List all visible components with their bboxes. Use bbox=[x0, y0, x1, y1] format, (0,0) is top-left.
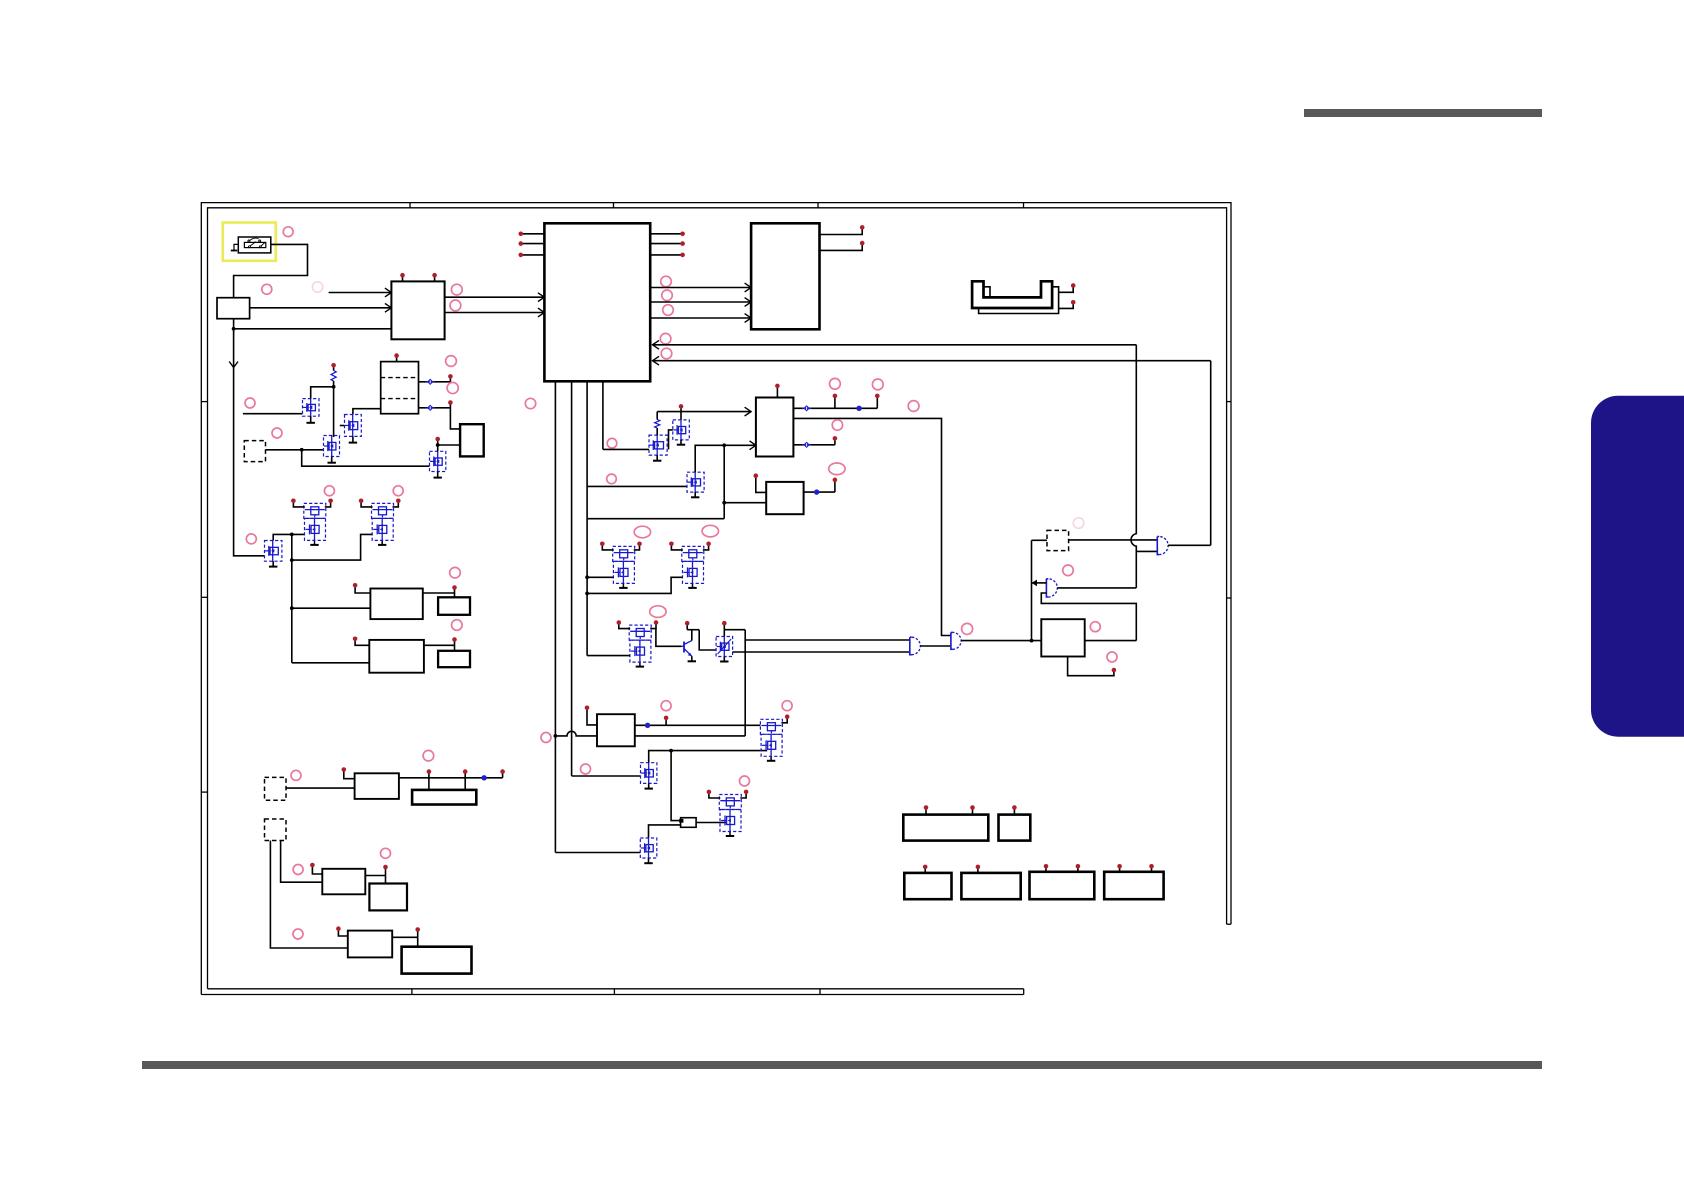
wire feedback2 vertical bbox=[1210, 361, 1212, 546]
junction rail-U7 bbox=[290, 606, 294, 610]
wire DBB to U12 bbox=[270, 841, 347, 949]
wire floating to U2 input1 bbox=[329, 292, 392, 294]
wire A2 input1 bbox=[1032, 582, 1047, 584]
pink mark U2 out2 bbox=[450, 300, 461, 311]
and gate A3 bbox=[912, 637, 921, 655]
pink mark left of Q3 bbox=[272, 428, 282, 438]
pin stub U4 out1a bbox=[834, 397, 836, 408]
wire stubs into U10b bbox=[428, 778, 430, 790]
wire DB1 to Q3 gate bbox=[266, 449, 324, 451]
pink mark above U9 out bbox=[661, 701, 671, 711]
regulator U2 bbox=[391, 281, 444, 339]
wire U6 out to A2 loop bbox=[1085, 640, 1137, 642]
and gate A1 bbox=[1159, 537, 1168, 555]
pink ellipse above P1 bbox=[634, 526, 650, 538]
pin stub Qb rail bbox=[680, 408, 682, 412]
pink mark near switch bbox=[283, 227, 293, 237]
Qx source bar bbox=[648, 783, 650, 788]
load block U11b bbox=[369, 884, 407, 911]
wire vertical P9 return bbox=[744, 640, 746, 736]
dashed box DB1 bbox=[244, 441, 265, 462]
pink mark below U1 bbox=[525, 398, 535, 408]
pin stub U9 left bbox=[587, 709, 597, 725]
module block B18 bbox=[1030, 872, 1095, 899]
resistor R3 bbox=[655, 420, 660, 429]
pink marks U1 right inputs bbox=[660, 333, 671, 344]
wire collector node bbox=[687, 629, 699, 631]
U1 left pin1 bbox=[522, 233, 545, 235]
pin stub U10 outb bbox=[464, 773, 466, 778]
transistor Qc bbox=[687, 472, 704, 492]
wire J1 to regulator U2 input2 bbox=[250, 307, 392, 309]
pin stub R1 top bbox=[333, 367, 335, 371]
wire Q2 gate link bbox=[340, 425, 345, 427]
wire V4 from U1 bbox=[602, 381, 604, 449]
pin stub U9 out1 bbox=[665, 719, 667, 725]
wire U7 out bbox=[423, 592, 455, 594]
pink marks U4 out1 bbox=[830, 378, 841, 389]
junction V3-P2 bbox=[585, 592, 589, 596]
wire Qd drain stub bbox=[723, 630, 725, 637]
junction node-U5 bbox=[722, 501, 726, 505]
pink mark right of J1 bbox=[262, 284, 272, 294]
wire V2 from U1 bbox=[571, 381, 573, 776]
wire DB1 node to Q4 gate bbox=[302, 450, 430, 466]
pink mark U4 out3 bbox=[832, 420, 842, 430]
wire U1 to U3 bus2 bbox=[650, 301, 751, 303]
wire rail to P7 gate bbox=[292, 534, 372, 560]
wire U4 out3 bbox=[793, 444, 835, 446]
resistor block RB bbox=[681, 818, 697, 828]
mosfet pair P13 bbox=[629, 625, 651, 640]
pin stub Q4 drain bbox=[437, 440, 439, 445]
wire feedback1 vertical with hop bbox=[1131, 345, 1136, 588]
and gate A2 bbox=[1048, 579, 1057, 597]
pink mark above Q15 bbox=[665, 705, 667, 707]
pink mark on V3 wire bbox=[607, 474, 617, 484]
transistor Qd bbox=[716, 637, 733, 657]
pink mark left of Q4 wire bbox=[276, 432, 278, 434]
pink marks D1 outputs bbox=[446, 356, 457, 367]
wire V1 from U1 bbox=[554, 381, 556, 852]
transistor Qx bbox=[641, 763, 657, 784]
U1 left pin3 bbox=[522, 254, 545, 256]
load block R2 bbox=[460, 424, 484, 456]
sheet border inner bbox=[208, 208, 1227, 989]
pink mark left of M5 bbox=[246, 534, 256, 544]
pink mark above U11 out bbox=[381, 848, 391, 858]
wire V3 from U1 bbox=[586, 381, 588, 655]
wire U6 bottom pin bbox=[1068, 657, 1114, 676]
driver block U9 bbox=[597, 714, 635, 746]
pink mark above U10 out bbox=[423, 750, 434, 761]
pink marks U1 right outputs bbox=[661, 276, 672, 287]
wire V1 to U9 with hop bbox=[555, 731, 597, 736]
pin stub U8 left bbox=[355, 640, 369, 645]
wire V1 to Q14 gate bbox=[555, 852, 640, 854]
dashed box DBB bbox=[265, 819, 287, 841]
wire A4 out to U6 bbox=[961, 640, 1041, 642]
Qb source bar bbox=[680, 440, 682, 445]
wire V3 link bbox=[587, 518, 724, 520]
pink mark left of U9 bbox=[541, 733, 551, 743]
pin stub B14 b bbox=[972, 809, 974, 815]
wire U8 out down bbox=[454, 645, 456, 651]
wire Qd out to gate A3 bbox=[733, 651, 910, 653]
wire U11 out bbox=[365, 875, 385, 877]
wire Qx drain rail bbox=[649, 751, 768, 763]
pin stub U4 out3 bbox=[834, 440, 836, 445]
junction square at RB bbox=[679, 819, 683, 823]
wire A3 to A4 bbox=[920, 645, 951, 647]
timer block U7 bbox=[370, 589, 422, 620]
transistor Q2 bbox=[345, 415, 362, 437]
pink mark U2 out1 bbox=[451, 284, 462, 295]
arrow down on J1 branch bbox=[229, 362, 238, 368]
Q15 emitter bar bbox=[691, 656, 693, 661]
pink mark on V4 wire bbox=[607, 438, 617, 448]
wire rail to U4 input1 bbox=[657, 411, 751, 413]
wire feedback2 into U1 bbox=[653, 360, 1211, 362]
junction V3-P1 bbox=[585, 575, 589, 579]
wire D1 out2 bbox=[419, 407, 451, 409]
junction Qc node bbox=[722, 443, 726, 447]
wire U7 out down bbox=[454, 593, 456, 597]
Q14 source bar bbox=[648, 858, 650, 863]
module block B14 bbox=[903, 815, 988, 841]
pink mark left of Q1 bbox=[245, 398, 255, 408]
wire D1 out1 bbox=[419, 381, 451, 383]
wire rail to U8 bbox=[292, 662, 370, 664]
wire Qb drain bbox=[680, 412, 682, 420]
wire rail to U7 bbox=[292, 607, 371, 609]
sheet border tick left bbox=[201, 401, 207, 403]
timer block U8 bbox=[369, 640, 424, 673]
status block U6 bbox=[1041, 619, 1084, 656]
sheet border outer bbox=[201, 203, 1231, 995]
sheet border outer bottom bbox=[201, 994, 1023, 996]
mosfet pair P1 bbox=[613, 546, 635, 561]
wire A2 out bbox=[1057, 587, 1136, 589]
Q2 source bar bbox=[352, 436, 354, 442]
pin stub B15 bbox=[1013, 809, 1015, 815]
junction Q4 drain bbox=[436, 443, 440, 447]
wire V3 to P2 gate bbox=[587, 577, 682, 593]
wire node to U5 input bbox=[724, 502, 766, 504]
wire U1 to U3 bus1 bbox=[650, 287, 751, 289]
wire bracket pin1 bbox=[1059, 287, 1074, 293]
wire A1 input2 bbox=[1136, 550, 1157, 552]
dashed box DBA bbox=[265, 777, 287, 800]
blue side tab bbox=[1591, 396, 1684, 737]
pin stub U12 out bbox=[417, 931, 419, 938]
wire Qa drain to R3 bbox=[656, 428, 658, 435]
wire U12 out bbox=[392, 936, 418, 938]
U1 right pin1 bbox=[650, 233, 682, 235]
mosfet pair P2 bbox=[682, 546, 704, 561]
wire D1 out2 to R2 bbox=[450, 408, 460, 429]
pin stub B19 b bbox=[1151, 868, 1153, 872]
wire Qb gate link bbox=[669, 430, 673, 450]
wire U3 pin out1 bbox=[820, 229, 863, 235]
wire rail down to RB bbox=[671, 751, 681, 821]
arrow on V6 bbox=[1032, 580, 1038, 587]
Qc source bar bbox=[694, 492, 696, 497]
pin stub U2 top2 bbox=[434, 276, 436, 281]
wire P13 right node bbox=[656, 629, 682, 647]
sheet border inner bottom bbox=[208, 988, 1024, 990]
wire DB2 west bbox=[1032, 539, 1048, 541]
junction R1 node bbox=[332, 385, 336, 389]
pink mark near A1 bbox=[1063, 565, 1074, 576]
Qd source bar bbox=[723, 657, 725, 662]
wire V6 vertical bbox=[1031, 540, 1033, 640]
sheet border end tick bottom bbox=[1023, 989, 1025, 995]
transistor M5 bbox=[265, 541, 282, 562]
bottom gray rule bbox=[142, 1061, 1542, 1069]
transistor Q4 bbox=[430, 451, 446, 471]
pin stub U7 left bbox=[355, 587, 370, 594]
pin stub U11 out bbox=[385, 868, 387, 875]
pink mark right of U7 bbox=[450, 567, 461, 578]
junction V1 block9 bbox=[554, 734, 558, 738]
wire collector to Qd gate bbox=[699, 630, 716, 650]
module block B16 bbox=[904, 873, 951, 899]
battery bracket bbox=[972, 281, 1052, 308]
pin stub Q15 collector bbox=[686, 624, 688, 629]
pink mark above P16 bbox=[740, 776, 750, 786]
clock block U10 bbox=[355, 773, 399, 799]
U1 right pin2 bbox=[650, 243, 682, 245]
pin stub U11 left bbox=[312, 866, 322, 874]
wire U9 out1 bbox=[635, 724, 761, 726]
pin stub D1 top bbox=[396, 357, 398, 362]
connector J1 bbox=[217, 298, 250, 319]
wire A1 out bbox=[1168, 544, 1211, 546]
mosfet pair P7 bbox=[372, 503, 394, 518]
wire bracket pin2 bbox=[1059, 304, 1074, 309]
pink mark left of U11 bbox=[293, 865, 303, 875]
resistor R1 bbox=[331, 371, 336, 382]
and gate A4 bbox=[953, 632, 961, 649]
wire U4 out2 long bbox=[793, 418, 951, 635]
mosfet pair P16 bbox=[719, 795, 741, 810]
pin stub B16 bbox=[924, 868, 926, 873]
wire RB to P16 gate bbox=[696, 822, 726, 824]
wire branch to U2 input3 bbox=[234, 328, 392, 330]
U1 right pin3 bbox=[650, 254, 682, 256]
transistor Q14 bbox=[640, 838, 657, 858]
wire Qd node right bbox=[724, 629, 745, 631]
wire V2 to Qx gate bbox=[572, 775, 641, 777]
mosfet pair P6 bbox=[304, 503, 326, 518]
junction Qx rail bbox=[669, 749, 673, 753]
pink ellipse above P2 bbox=[702, 525, 718, 537]
Qa source bar bbox=[656, 455, 658, 461]
pin stub B18 b bbox=[1077, 868, 1079, 872]
wire Qc drain to U4 input2 bbox=[695, 445, 756, 472]
wire U4 out1 bbox=[793, 407, 877, 409]
wire J1 bottom branch bbox=[234, 319, 265, 556]
pin stub D1 out2 bbox=[449, 404, 451, 408]
wire R3 to rail bbox=[656, 412, 658, 420]
Q15 collector wire bbox=[691, 630, 693, 641]
main controller U1 bbox=[544, 223, 650, 381]
wire U11 out down bbox=[385, 876, 387, 884]
pin stub U4 out1b bbox=[876, 397, 878, 408]
wire Q1 drain to R1 node bbox=[311, 387, 334, 399]
Q1 source bar bbox=[310, 416, 312, 423]
pin stub U7 out bbox=[454, 589, 456, 593]
sheet border tick top bbox=[409, 203, 411, 208]
U1 left pin2 bbox=[522, 243, 545, 245]
switch SW1 outer box bbox=[238, 237, 270, 253]
pin stub U4 top bbox=[776, 387, 778, 397]
battery bracket shadow bbox=[979, 287, 1059, 314]
load block U8b bbox=[438, 651, 470, 667]
power logic U4 bbox=[756, 398, 794, 457]
wire Qd node down bbox=[745, 630, 910, 640]
junction M5 rail bbox=[290, 533, 294, 537]
pink mark above P10 bbox=[782, 701, 792, 711]
transistor Qb bbox=[673, 420, 690, 440]
pin stub D1 out1 bbox=[449, 378, 451, 382]
transistor Q3 bbox=[324, 436, 340, 457]
top-right gray rule bbox=[1304, 109, 1542, 117]
module block B19 bbox=[1104, 872, 1163, 899]
Q3 source bar bbox=[331, 457, 333, 463]
load block U10b bbox=[412, 790, 476, 805]
junction rail-P7 bbox=[290, 558, 294, 562]
wire U10 out bbox=[399, 777, 503, 779]
junction A4-V6 bbox=[1030, 639, 1034, 643]
wire Qc node down bbox=[723, 445, 725, 518]
wire R1 to Q3 drain bbox=[333, 381, 335, 437]
pink mark right of DBA bbox=[291, 770, 301, 780]
wire Q4 drain to R2 bbox=[438, 445, 460, 451]
clock block U11 bbox=[322, 869, 365, 895]
wire U2 out2 to U1 bbox=[445, 312, 545, 314]
wire V3 to Qc gate bbox=[587, 485, 687, 487]
wire U5 out bbox=[804, 491, 835, 493]
pin stub U10 left bbox=[344, 771, 355, 779]
pin stub B18 a bbox=[1045, 868, 1047, 872]
pink mark U4 out2 bbox=[908, 401, 919, 412]
pink mark right of U8 bbox=[452, 620, 463, 631]
pink ellipse below P1 bbox=[650, 606, 666, 618]
wire U2 out1 to U1 bbox=[445, 296, 545, 298]
pin stub B19 a bbox=[1119, 868, 1121, 872]
module block B15 bbox=[999, 815, 1031, 841]
sheet border tick right bbox=[1227, 401, 1231, 403]
pink marks near U6 bbox=[1090, 622, 1100, 632]
wire M5 drain rail bbox=[273, 534, 304, 540]
ghost mark right of switch bbox=[312, 282, 322, 292]
wire feedback1 into U1 bbox=[653, 344, 1137, 346]
mosfet pair P10 bbox=[760, 719, 782, 734]
dashed box DB2 bbox=[1047, 530, 1069, 550]
load block U12b bbox=[402, 947, 472, 974]
transistor Qa bbox=[649, 435, 667, 455]
wire DBA to U10 bbox=[286, 787, 355, 789]
switch SW1 contacts bbox=[248, 240, 250, 242]
pink mark at A4 bbox=[962, 623, 973, 634]
pin stub U5 out bbox=[834, 481, 836, 492]
pin stub B17 bbox=[977, 868, 979, 873]
pink mark above P7 bbox=[393, 486, 403, 496]
pink mark on Qx wire bbox=[581, 764, 591, 774]
transistor Q1 bbox=[303, 399, 320, 417]
wire U1 to U3 bus3 bbox=[650, 317, 751, 319]
wire Q14 drain to RB bbox=[649, 825, 681, 838]
pin stub U5 left bbox=[756, 477, 766, 492]
transistor Q15 bjt bbox=[683, 642, 685, 653]
switch SW1 inner box bbox=[244, 242, 265, 247]
wire U12 out down bbox=[417, 937, 419, 946]
wire A2 input2 loop bbox=[1041, 593, 1136, 641]
pin stub U10 outc bbox=[502, 773, 504, 778]
wire switch to connector bbox=[234, 244, 308, 297]
ghost mark above DB2 bbox=[1073, 518, 1084, 529]
pink ellipse above U5 bbox=[829, 463, 845, 475]
wire V3 to P1 gate bbox=[587, 576, 613, 578]
wire DBB to U11 bbox=[281, 841, 323, 883]
wire V4 to Qa gate bbox=[603, 448, 649, 450]
wire V3 to P13 gate bbox=[587, 655, 630, 657]
pin stub U12 left bbox=[338, 930, 347, 936]
switch ground symbol bbox=[234, 244, 238, 250]
Q4 source bar bbox=[437, 472, 439, 478]
sheet border tick bottom bbox=[411, 989, 413, 995]
wire U3 pin out2 bbox=[820, 244, 863, 250]
pin stub U10 outa bbox=[428, 773, 430, 778]
junction J1 branch bbox=[232, 327, 236, 331]
wire DB2 to A1 bbox=[1069, 539, 1158, 541]
pink mark above P6 bbox=[324, 486, 334, 496]
sequencer D1 bbox=[381, 362, 419, 414]
pink mark left of U12 bbox=[293, 929, 303, 939]
module block B17 bbox=[961, 873, 1020, 899]
clock block U12 bbox=[348, 931, 392, 958]
wire U8 out bbox=[424, 644, 455, 646]
companion controller U3 bbox=[751, 223, 819, 329]
pin stub U8 out bbox=[454, 641, 456, 646]
wire Q1 gate bbox=[243, 413, 303, 415]
junction DB1 node bbox=[300, 448, 304, 452]
pin stub U2 top1 bbox=[402, 276, 404, 281]
yellow highlight box bbox=[223, 223, 276, 261]
delay block U5 bbox=[766, 482, 803, 514]
pin stub Qd drain bbox=[723, 624, 725, 629]
wire rail down bbox=[291, 534, 293, 662]
pin stub B14 a bbox=[925, 809, 927, 815]
wire U9 out2 bbox=[635, 735, 745, 737]
load block U7b bbox=[438, 597, 470, 615]
M5 source bar bbox=[272, 561, 274, 566]
wire Q2 drain to D1 bbox=[353, 409, 381, 415]
